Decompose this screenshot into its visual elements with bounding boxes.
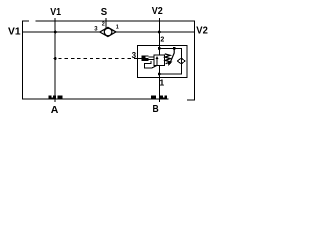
svg-text:1: 1 bbox=[159, 78, 164, 88]
svg-text:S: S bbox=[101, 6, 107, 18]
svg-text:V1: V1 bbox=[8, 26, 21, 38]
svg-text:1: 1 bbox=[116, 25, 119, 31]
svg-text:V2: V2 bbox=[196, 25, 208, 37]
svg-text:V2: V2 bbox=[152, 5, 163, 17]
svg-text:V1: V1 bbox=[50, 6, 61, 18]
svg-text:B: B bbox=[153, 103, 160, 115]
svg-text:2: 2 bbox=[102, 22, 105, 28]
svg-text:2: 2 bbox=[160, 37, 164, 44]
svg-text:3: 3 bbox=[132, 51, 137, 60]
svg-text:A: A bbox=[51, 104, 59, 116]
